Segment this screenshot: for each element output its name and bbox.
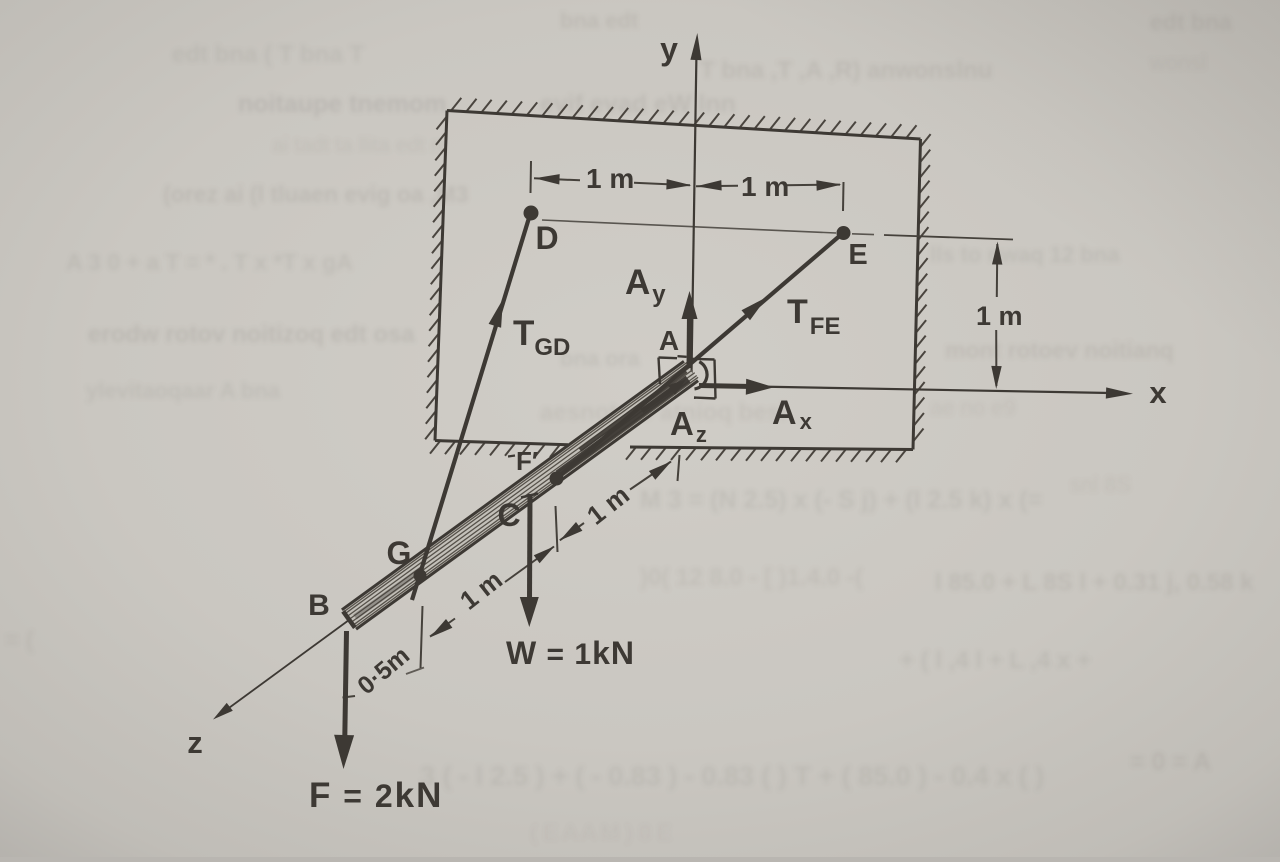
svg-text:ae no e9: ae no e9	[930, 395, 1016, 420]
beam AB body	[342, 361, 698, 629]
cable T_FE from F to E	[557, 233, 844, 479]
cable T_GD from G to D	[412, 213, 531, 600]
svg-text:M 3 = (N 2.5) x (- S j) + (l 2: M 3 = (N 2.5) x (- S j) + (l 2.5 k) x (=	[640, 486, 1042, 514]
dimension 1m left: tick at D	[530, 161, 533, 193]
svg-text:G: G	[387, 535, 412, 571]
svg-text:C: C	[497, 497, 520, 533]
svg-text:bna edt: bna edt	[560, 8, 639, 33]
wall bottom edge right part	[630, 447, 913, 450]
svg-text:l 85.0 + L 8S l + 0.31 j, 0.58: l 85.0 + L 8S l + 0.31 j, 0.58 k	[935, 569, 1254, 596]
svg-text:evif evad eW lnn: evif evad eW lnn	[540, 90, 736, 118]
svg-text:edt bna: edt bna	[1150, 9, 1232, 35]
beam dim tick on F shaft	[343, 696, 356, 698]
beam dark stripe near A upper	[580, 371, 686, 450]
wall top edge	[447, 111, 921, 140]
svg-text:E: E	[848, 239, 867, 271]
beam end cap at B	[343, 611, 355, 627]
svg-text:)0( 12 8.0 - [ )1.4.0 -(: )0( 12 8.0 - [ )1.4.0 -(	[640, 564, 863, 591]
dimension 1m right: tick at E	[842, 182, 845, 211]
z-axis	[213, 703, 233, 720]
A label leader dash	[678, 355, 687, 358]
reaction Az arrow along beam	[642, 387, 676, 412]
svg-text:B: B	[308, 589, 330, 622]
beam dark stripe near A	[558, 379, 688, 474]
C tick on beam	[521, 494, 538, 498]
beam inner longitudinal lines	[344, 362, 688, 612]
point D dot	[524, 206, 539, 221]
svg-text:erodw rotov noitizoq ed: erodw rotov noitizoq edt osa	[88, 321, 415, 348]
svg-text:T bna ,T ,A ,R) anwonslnu: T bna ,T ,A ,R) anwonslnu	[700, 57, 992, 84]
point E dot	[837, 226, 851, 240]
svg-text:x: x	[1149, 375, 1167, 410]
svg-text:W = 1kN: W = 1kN	[506, 635, 635, 671]
svg-text:edt bna ( T bna T: edt bna ( T bna T	[172, 41, 364, 68]
svg-text:( E A A M ) 8 E: ( E A A M ) 8 E	[530, 820, 672, 845]
beam lower edge	[342, 361, 684, 610]
svg-text:F′: F′	[516, 446, 538, 476]
svg-text:= 0 = A: = 0 = A	[1130, 748, 1211, 776]
svg-text:ai tadt ta llita edt ni: ai tadt ta llita edt ni	[272, 134, 447, 157]
svg-text:z: z	[187, 725, 203, 760]
point F dot	[550, 472, 564, 486]
beam dark stripe near B	[355, 569, 422, 617]
svg-text:ylevitaoqaar A bna: ylevitaoqaar A bna	[86, 378, 281, 403]
svg-text:= (: = (	[5, 627, 34, 654]
svg-text:bna ora: bna ora	[560, 346, 640, 371]
svg-text:D: D	[535, 220, 558, 256]
svg-text:F = 2kN: F = 2kN	[309, 776, 443, 815]
reaction Ay arrow	[687, 313, 693, 368]
wall left edge	[435, 111, 447, 441]
dimension 1m vertical: line and arrows	[996, 244, 999, 297]
beam dim tick below A	[678, 455, 680, 481]
level line D to E	[542, 220, 836, 233]
wire z-line through beam tip	[220, 620, 349, 715]
svg-text:y: y	[660, 31, 678, 67]
wall right edge	[913, 139, 921, 450]
svg-text:noitaupe tnemom: noitaupe tnemom	[238, 90, 446, 118]
cable T_FE arrowhead	[742, 297, 768, 320]
cable T_GD arrowhead	[489, 299, 503, 328]
point G dot	[414, 569, 427, 582]
dimension 1m left: line and arrows	[534, 178, 580, 180]
svg-text:lls to nwaq 12 bna: lls to nwaq 12 bna	[930, 242, 1120, 267]
wall hatching left	[437, 117, 447, 130]
joint angle arc	[695, 362, 708, 389]
svg-text:snl 8S: snl 8S	[1070, 472, 1131, 497]
svg-text:+ ( l ,4 l + L ,4 x +: + ( l ,4 l + L ,4 x +	[900, 647, 1091, 674]
beam dim 1m (A-C): lines	[560, 523, 584, 540]
load W arrow at C	[527, 494, 533, 601]
joint bracket at A	[659, 358, 661, 385]
x-axis	[700, 386, 1110, 394]
y-axis	[692, 50, 697, 374]
svg-text:mont rotoev noitianq: mont rotoev noitianq	[945, 337, 1174, 363]
dimension 1m right: line and arrows	[696, 185, 738, 188]
beam dim 1m (C-G): lines	[430, 619, 455, 637]
svg-text:1 m: 1 m	[741, 171, 789, 202]
svg-text:wonsl: wonsl	[1149, 50, 1206, 75]
wall hatching bottom-right	[626, 447, 636, 460]
load F arrow at B	[345, 631, 347, 737]
beam dim tick at C	[556, 506, 558, 552]
svg-text:1 m: 1 m	[586, 163, 634, 194]
beam dim 0.5m line	[406, 668, 424, 675]
beam dim long tick between 1m and 0.5m	[421, 606, 423, 668]
svg-text:(orez ai (l tluaen evig oa: (orez ai (l tluaen evig oa ,M3	[163, 181, 468, 207]
wall hatching top	[451, 98, 461, 111]
beam upper edge	[356, 381, 698, 630]
wall bottom edge left part	[435, 441, 568, 445]
wall hatching bottom-left	[430, 441, 440, 454]
svg-text:1 m: 1 m	[976, 301, 1023, 331]
svg-text:3 ( - l 2.5 ) + ( - 0.83 ) - 0: 3 ( - l 2.5 ) + ( - 0.83 ) - 0.83 ( ) T …	[420, 761, 1044, 791]
F-prime leader dash	[508, 456, 515, 457]
svg-text:A 3 0 + a T = * . T x *T x: A 3 0 + a T = * . T x *T x gA	[66, 249, 353, 275]
svg-text:A: A	[659, 325, 679, 356]
wall hatching right	[920, 134, 930, 147]
level line right of E	[884, 235, 1013, 240]
reaction Ax arrow	[699, 386, 752, 387]
